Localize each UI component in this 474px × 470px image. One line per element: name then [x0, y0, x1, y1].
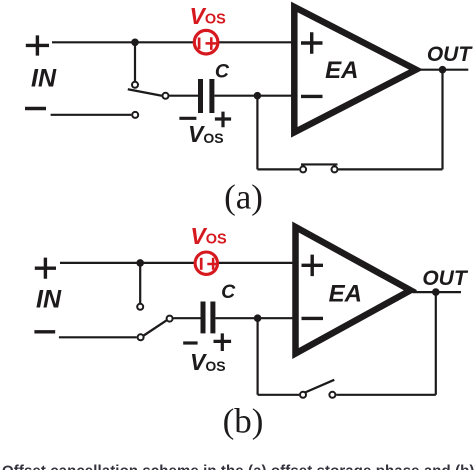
svg-text:IN: IN: [36, 285, 62, 313]
svg-text:(a): (a): [224, 178, 263, 217]
wire IN+ to EA (b): [60, 262, 295, 264]
switch S2 contact left: [300, 166, 306, 172]
node output junction: [439, 66, 447, 74]
EA noninverting input plus label (b): [302, 255, 324, 277]
IN+ plus terminal label: [26, 35, 49, 55]
op-amp EA error amplifier (a): [294, 7, 416, 132]
wire feedback up to node B: [256, 96, 258, 170]
svg-text:EA: EA: [325, 57, 358, 84]
svg-text:OUT: OUT: [427, 43, 474, 66]
IN- minus terminal label (b): [34, 330, 55, 333]
svg-text:C: C: [221, 281, 236, 303]
wire capacitor C1 to inverting node: [214, 95, 257, 97]
wire feedback up to node B (b): [257, 318, 259, 395]
wire input junction down to switch S1: [134, 42, 136, 82]
capacitor C1 plates: [201, 79, 212, 113]
switch S3 open contact from IN+: [137, 304, 143, 310]
node input junction A: [131, 39, 139, 47]
svg-text:(b): (b): [223, 402, 264, 441]
IN- minus terminal label: [25, 107, 46, 110]
svg-text:OUT: OUT: [422, 267, 469, 290]
op-amp EA error amplifier (b): [296, 227, 411, 354]
wire feedback bottom right (b): [336, 394, 436, 396]
offset voltage source VOS (red circle): [194, 30, 218, 54]
switch S4 contact left: [300, 392, 306, 398]
capacitor C2 plates: [203, 302, 213, 334]
switch S1 contact to capacitor: [163, 93, 169, 99]
switch S3 contact to capacitor: [167, 316, 173, 322]
wire EA output: [418, 69, 468, 71]
EA noninverting input plus label: [301, 32, 323, 54]
EA inverting input minus label (b): [302, 317, 324, 320]
wire output down to feedback (b): [435, 292, 437, 395]
switch S1 open contact at IN-: [132, 112, 138, 118]
wire feedback bottom left (b): [258, 394, 300, 396]
node output junction (b): [432, 288, 440, 296]
svg-text:C: C: [215, 61, 230, 83]
svg-text:IN: IN: [31, 65, 57, 93]
wire node B to EA inverting input: [257, 95, 294, 97]
wire feedback bottom right: [338, 168, 442, 170]
capacitor C1 plus polarity label: [215, 112, 231, 128]
node EA inverting input B (b): [254, 314, 262, 322]
wire output down to feedback: [441, 70, 443, 170]
wire junction down to switch S3 (b): [139, 263, 141, 304]
wire IN+ to EA noninverting input: [52, 41, 294, 43]
wire capacitor C2 to inverting node (b): [215, 317, 257, 319]
switch S4 contact right: [329, 392, 335, 398]
switch S2 arm (closed): [301, 163, 338, 165]
wire IN- (b): [59, 336, 137, 338]
switch S3 arm (closed IN- to capacitor): [143, 320, 167, 336]
node input junction A (b): [136, 259, 144, 267]
svg-text:EA: EA: [329, 281, 362, 308]
switch S3 pivot contact at IN-: [138, 334, 144, 340]
svg-text:Offset cancellation scheme in: Offset cancellation scheme in the (a) of…: [2, 463, 474, 470]
switch S1 pivot contact: [132, 82, 138, 88]
capacitor C2 minus polarity label: [183, 341, 197, 344]
wire IN-: [51, 114, 132, 116]
offset voltage source VOS red circle (b): [195, 252, 219, 274]
wire EA output (b): [413, 291, 462, 293]
switch S1 arm (closed, to capacitor): [128, 89, 162, 96]
switch S4 arm (open): [305, 380, 334, 393]
wire switch S3 to capacitor C2: [174, 317, 201, 319]
capacitor C2 plus polarity label: [214, 333, 232, 351]
wire feedback bottom left: [257, 168, 299, 170]
switch S2 contact right: [332, 166, 338, 172]
EA inverting input minus label: [301, 95, 323, 98]
wire switch S1 to capacitor C1: [169, 95, 198, 97]
node EA inverting input B: [254, 92, 262, 100]
wire node to EA inverting input (b): [258, 317, 295, 319]
capacitor C1 minus polarity label: [179, 117, 196, 120]
IN+ plus terminal label (b): [35, 258, 56, 279]
